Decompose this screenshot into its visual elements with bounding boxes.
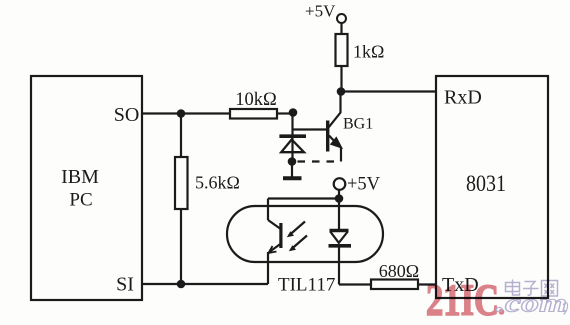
watermark com swash — [563, 303, 568, 315]
wire SO to 5.6k — [180, 114, 182, 158]
wire emitter drop — [340, 147, 342, 162]
diode clamp cathode bar — [279, 134, 306, 138]
svg-text:680Ω: 680Ω — [379, 261, 419, 281]
wire RxD net — [341, 90, 436, 92]
wire to transistor base — [293, 128, 327, 130]
transistor BG1 base bar — [326, 121, 329, 152]
wire LED to 680 — [339, 283, 371, 285]
light arrow upper head — [287, 231, 294, 237]
svg-text:PC: PC — [69, 190, 92, 211]
svg-text:IBM: IBM — [61, 166, 99, 188]
svg-text:+5V: +5V — [305, 2, 336, 21]
terminal +5V mid circle — [334, 178, 346, 190]
wire base drop — [291, 113, 293, 162]
svg-text:10kΩ: 10kΩ — [235, 90, 277, 110]
svg-text:.com: .com — [496, 289, 567, 318]
wire 5.6k to SI — [180, 209, 182, 284]
IBM PC box — [31, 76, 142, 300]
wire 10k to base node — [277, 112, 293, 114]
phototransistor base bar — [279, 223, 282, 248]
watermark 21IC period — [499, 309, 505, 315]
wire opto emitter drop — [267, 252, 269, 284]
wire 5V to 1k — [340, 23, 342, 34]
svg-text:8031: 8031 — [466, 171, 506, 196]
node anode junction — [335, 194, 344, 203]
resistor 10kΩ body — [230, 109, 277, 119]
light arrow upper — [290, 222, 306, 236]
wire 5V mid to anode node — [338, 190, 340, 198]
node emitter-diode junction — [288, 157, 297, 166]
svg-text:1kΩ: 1kΩ — [353, 42, 384, 62]
wire SO net — [142, 112, 230, 114]
ground — [283, 176, 302, 180]
terminal +5V top circle — [337, 14, 346, 23]
phototransistor emitter arrow — [269, 246, 277, 253]
transistor BG1 emitter arrow — [330, 136, 343, 149]
resistor 680Ω body — [371, 280, 418, 290]
node base junction — [289, 108, 298, 117]
svg-text:RxD: RxD — [444, 87, 482, 109]
LED cathode wire — [338, 246, 340, 285]
wire SI net — [142, 283, 268, 285]
light arrow lower head — [289, 245, 296, 251]
diode clamp triangle — [281, 140, 304, 153]
8031 box — [436, 76, 548, 298]
wire 680 to TxD — [418, 283, 436, 285]
svg-text:5.6kΩ: 5.6kΩ — [195, 173, 240, 193]
node SI junction — [177, 280, 186, 289]
node collector junction — [337, 87, 346, 96]
resistor 5.6kΩ body — [175, 157, 188, 209]
phototransistor emitter lead — [270, 244, 281, 252]
wire dashed emitter link — [298, 160, 342, 162]
svg-text:SI: SI — [116, 274, 134, 296]
svg-text:21IC: 21IC — [426, 276, 499, 325]
optocoupler TIL117 body — [227, 206, 383, 262]
svg-text:+5V: +5V — [347, 175, 381, 195]
wire opto top link — [268, 197, 339, 199]
LED cathode bar — [329, 244, 352, 248]
watermark 电子网 — [506, 280, 558, 297]
svg-text:BG1: BG1 — [343, 116, 373, 133]
node SO junction — [177, 109, 186, 118]
phototransistor collector lead — [268, 220, 280, 229]
LED triangle sides — [330, 232, 348, 243]
transistor BG1 emitter lead — [329, 136, 337, 144]
svg-text:SO: SO — [114, 104, 140, 126]
light arrow lower — [292, 236, 308, 250]
LED anode wire — [338, 199, 340, 230]
svg-text:TIL117: TIL117 — [278, 275, 335, 296]
LED anode bar — [330, 229, 349, 233]
wire 1k to collector node — [340, 66, 342, 92]
wire ground stem — [291, 162, 293, 178]
transistor BG1 collector lead — [329, 92, 341, 128]
resistor 1kΩ body — [336, 34, 348, 66]
wire opto collector drop — [267, 199, 269, 221]
